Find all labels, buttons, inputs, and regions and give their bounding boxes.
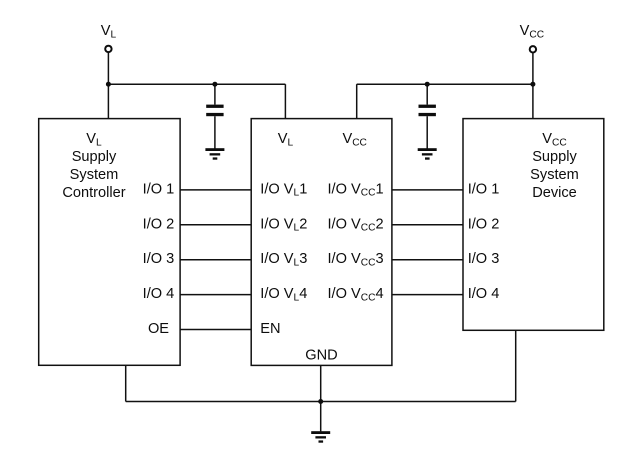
svg-text:I/O 4: I/O 4	[143, 286, 175, 302]
svg-text:Supply: Supply	[72, 149, 117, 165]
capacitor C2 (VCC bypass) plates	[419, 105, 436, 108]
svg-text:GND: GND	[305, 347, 337, 363]
wire: I/O 4 left	[180, 294, 251, 296]
svg-text:I/O 4: I/O 4	[468, 286, 500, 302]
svg-text:I/O VCC4: I/O VCC4	[328, 286, 384, 303]
capacitor C1 (VL bypass) bottom lead	[214, 116, 216, 149]
block U1: VL Supply System Controller box	[39, 119, 180, 366]
terminal VL (open circle)	[105, 46, 111, 52]
svg-text:Device: Device	[532, 185, 577, 201]
wire: I/O 1 right	[392, 189, 463, 191]
svg-text:VL: VL	[278, 131, 294, 148]
wire: level-shifter GND pin drop	[320, 365, 322, 401]
wire: I/O 2 right	[392, 224, 463, 226]
svg-text:I/O 1: I/O 1	[468, 181, 500, 197]
terminal VCC (open circle)	[530, 46, 536, 52]
svg-text:I/O VCC2: I/O VCC2	[328, 216, 384, 233]
svg-text:I/O VL1: I/O VL1	[260, 181, 307, 198]
wire: I/O 1 left	[180, 189, 251, 191]
svg-text:OE: OE	[148, 321, 169, 337]
svg-text:I/O 3: I/O 3	[468, 251, 500, 267]
node: ground bus junction	[318, 399, 323, 404]
capacitor C1 (VL bypass) top lead	[214, 84, 216, 104]
svg-text:I/O VL3: I/O VL3	[260, 251, 307, 268]
svg-text:VCC: VCC	[342, 131, 366, 148]
wire: VCC rail drop into level-shifter VCC pin	[356, 84, 358, 118]
node: VL rail junction at terminal	[106, 82, 111, 87]
ground symbol under capacitor C2	[418, 148, 437, 151]
svg-text:I/O 3: I/O 3	[143, 251, 175, 267]
node: VL rail junction at capacitor C1	[212, 82, 217, 87]
svg-text:System: System	[70, 167, 119, 183]
svg-text:I/O 2: I/O 2	[143, 216, 175, 232]
svg-text:I/O 2: I/O 2	[468, 216, 500, 232]
node: VCC rail junction at terminal	[530, 82, 535, 87]
svg-text:VCC: VCC	[542, 131, 566, 148]
capacitor C1 (VL bypass) plates	[206, 105, 223, 108]
svg-text:Supply: Supply	[532, 149, 577, 165]
wire: VL terminal drop to controller box top	[107, 49, 109, 119]
wire: VCC rail horizontal	[357, 83, 533, 85]
ground symbol at system ground bus	[311, 431, 330, 434]
svg-text:VCC: VCC	[520, 23, 544, 40]
wire: I/O 3 right	[392, 259, 463, 261]
capacitor C2 (VCC bypass) top lead	[426, 84, 428, 104]
svg-text:I/O 1: I/O 1	[143, 181, 175, 197]
wire: I/O 4 right	[392, 294, 463, 296]
wire: I/O 3 left	[180, 259, 251, 261]
wire: VL rail horizontal	[108, 83, 285, 85]
wire: device bottom drop to ground bus	[515, 330, 517, 401]
node: VCC rail junction at capacitor C2	[425, 82, 430, 87]
svg-text:System: System	[530, 167, 579, 183]
svg-text:I/O VCC3: I/O VCC3	[328, 251, 384, 268]
wire: ground stem at ground bus	[320, 402, 322, 432]
svg-text:I/O VL4: I/O VL4	[260, 286, 307, 303]
wire: VL rail drop into level-shifter VL pin	[284, 84, 286, 118]
svg-text:EN: EN	[260, 321, 280, 337]
svg-text:VL: VL	[86, 131, 102, 148]
block U2: level shifter box	[251, 119, 392, 366]
wire: OE to EN	[180, 329, 251, 331]
ground symbol under capacitor C1	[205, 148, 224, 151]
wire: VCC terminal drop to device box top	[532, 50, 534, 119]
wire: ground bus horizontal	[126, 401, 516, 403]
block U3: VCC Supply System Device box	[463, 119, 604, 331]
wire: controller bottom drop to ground bus	[125, 365, 127, 401]
wire: I/O 2 left	[180, 224, 251, 226]
svg-text:Controller: Controller	[62, 185, 125, 201]
capacitor C2 (VCC bypass) bottom lead	[426, 116, 428, 149]
svg-text:I/O VCC1: I/O VCC1	[328, 181, 384, 198]
svg-text:I/O VL2: I/O VL2	[260, 216, 307, 233]
svg-text:VL: VL	[101, 23, 117, 40]
